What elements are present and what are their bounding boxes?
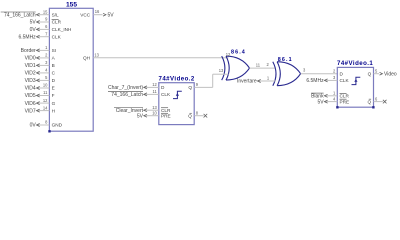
svg-text:CLK: CLK — [161, 92, 171, 97]
svg-text:VID6: VID6 — [25, 101, 36, 107]
svg-text:SI: SI — [52, 48, 56, 53]
svg-text:5V: 5V — [30, 20, 37, 26]
svg-text:74#Video.1: 74#Video.1 — [337, 60, 373, 67]
svg-text:11: 11 — [256, 62, 261, 67]
svg-text:Q: Q — [188, 85, 192, 90]
svg-text:VID7: VID7 — [25, 108, 36, 114]
svg-text:Char_7_(Invert): Char_7_(Invert) — [108, 85, 143, 91]
svg-text:10: 10 — [43, 83, 48, 88]
svg-text:10: 10 — [152, 110, 157, 115]
svg-text:12: 12 — [226, 52, 231, 57]
svg-text:5V: 5V — [108, 12, 115, 18]
svg-text:Border: Border — [21, 48, 36, 54]
svg-text:15: 15 — [43, 9, 48, 14]
svg-text:CLK: CLK — [52, 34, 62, 39]
svg-text:13: 13 — [219, 68, 224, 73]
svg-text:11: 11 — [43, 90, 48, 95]
svg-text:S/L: S/L — [52, 12, 59, 17]
svg-text:VID3: VID3 — [25, 78, 36, 84]
svg-text:86.1: 86.1 — [278, 57, 293, 63]
svg-text:G: G — [52, 101, 56, 106]
svg-text:74_166_Latch: 74_166_Latch — [111, 92, 143, 98]
svg-text:Q: Q — [368, 71, 372, 76]
svg-text:Invertare: Invertare — [237, 79, 257, 85]
svg-text:PRE: PRE — [340, 99, 350, 104]
svg-text:12: 12 — [43, 98, 48, 103]
svg-text:VID2: VID2 — [25, 71, 36, 77]
svg-text:GND: GND — [52, 123, 63, 128]
svg-text:VCC: VCC — [80, 12, 91, 17]
svg-text:74#Video.2: 74#Video.2 — [159, 75, 195, 82]
svg-text:CLR: CLR — [161, 108, 171, 113]
svg-text:F: F — [52, 93, 55, 98]
svg-text:86.4: 86.4 — [231, 49, 246, 55]
svg-text:6.5MHz: 6.5MHz — [18, 34, 36, 40]
svg-text:QH: QH — [83, 56, 90, 61]
svg-text:Q: Q — [367, 99, 371, 104]
svg-text:CLR: CLR — [340, 94, 350, 99]
svg-text:PRE: PRE — [161, 113, 171, 118]
svg-text:Q: Q — [188, 113, 192, 118]
svg-text:CLK: CLK — [340, 78, 350, 83]
svg-text:12: 12 — [152, 82, 157, 87]
svg-text:0V: 0V — [30, 27, 37, 33]
svg-text:H: H — [52, 108, 55, 113]
svg-text:155: 155 — [66, 2, 77, 9]
svg-text:74_166_Latch: 74_166_Latch — [4, 12, 36, 18]
svg-text:13: 13 — [152, 105, 157, 110]
svg-text:CLK_INH: CLK_INH — [52, 27, 72, 32]
svg-text:5V: 5V — [317, 99, 324, 105]
svg-text:Video: Video — [384, 71, 397, 77]
svg-text:5V: 5V — [137, 113, 144, 119]
svg-text:14: 14 — [43, 105, 48, 110]
svg-text:VID1: VID1 — [25, 63, 36, 69]
svg-text:B: B — [52, 63, 55, 68]
svg-text:VID4: VID4 — [25, 86, 36, 92]
svg-text:CLR: CLR — [52, 20, 62, 25]
svg-text:VID0: VID0 — [25, 56, 36, 62]
svg-text:16: 16 — [95, 9, 100, 14]
svg-text:11: 11 — [153, 89, 158, 94]
svg-text:6.5MHz: 6.5MHz — [306, 78, 324, 84]
svg-text:0V: 0V — [30, 123, 37, 129]
svg-text:VID5: VID5 — [25, 93, 36, 99]
svg-text:13: 13 — [94, 53, 99, 58]
svg-text:E: E — [52, 86, 55, 91]
